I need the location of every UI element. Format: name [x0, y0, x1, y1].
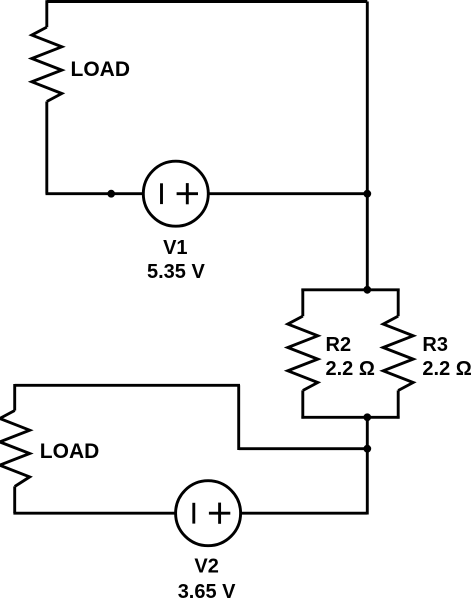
wire V2 right — [241, 512, 368, 515]
wire LOAD1 bottom down — [45, 102, 48, 194]
node parallel bottom junction — [363, 413, 371, 421]
svg-text:3.65 V: 3.65 V — [178, 581, 236, 600]
svg-text:2.2 Ω: 2.2 Ω — [326, 358, 375, 380]
wire LOAD2 bottom down — [13, 486, 16, 513]
wire left drop to LOAD1 — [45, 0, 48, 27]
wire left drop to LOAD2 — [13, 384, 16, 411]
wire V1 right to node — [208, 192, 367, 195]
resistor R3 — [383, 316, 413, 390]
node V1/right rail junction — [363, 190, 371, 198]
voltage source V1 — [143, 161, 208, 226]
node parallel top junction — [363, 286, 371, 294]
svg-text:R3: R3 — [422, 334, 448, 356]
wire R2 top lead — [301, 289, 304, 317]
node bottom-loop junction — [363, 445, 371, 453]
wire down from parallel pair — [366, 417, 369, 448]
svg-text:V1: V1 — [163, 237, 187, 259]
svg-text:2.2 Ω: 2.2 Ω — [422, 358, 471, 380]
wire junction left to corner — [239, 447, 368, 450]
wire top rail — [47, 0, 368, 3]
wire R3 top lead — [397, 289, 400, 317]
svg-text:LOAD: LOAD — [40, 440, 100, 463]
wire up to junction — [366, 449, 369, 515]
wire to V1 left — [46, 192, 144, 195]
wire R3 bottom lead — [397, 390, 400, 418]
svg-text:5.35 V: 5.35 V — [147, 261, 205, 283]
resistor R2 — [288, 316, 318, 390]
wire parallel bottom rail — [301, 416, 399, 419]
wire to V2 left — [13, 512, 175, 515]
svg-text:V2: V2 — [194, 556, 218, 578]
svg-text:R2: R2 — [326, 334, 352, 356]
wire R2 bottom lead — [301, 390, 304, 418]
wire down to parallel pair — [366, 194, 369, 290]
resistor LOAD (bottom) — [0, 411, 30, 487]
voltage source V2 — [176, 481, 241, 546]
wire bottom loop top rail — [15, 384, 240, 387]
svg-text:LOAD: LOAD — [71, 58, 131, 81]
wire corner up — [237, 385, 240, 450]
node junction left of V1 — [107, 190, 115, 198]
resistor LOAD (top) — [32, 27, 62, 101]
wire parallel top rail — [301, 288, 399, 291]
wire right vertical top — [366, 2, 369, 194]
